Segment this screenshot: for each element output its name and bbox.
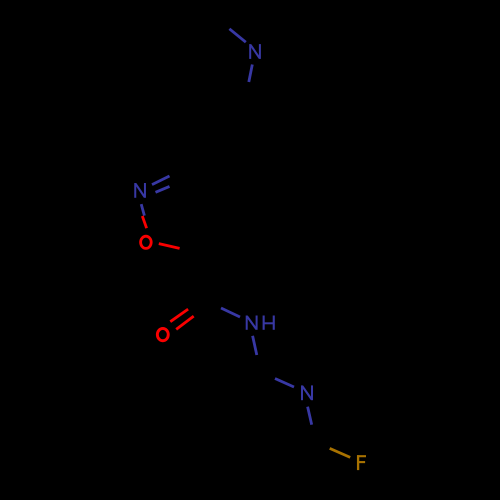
wire: top pyridine N1&#8594;C6 bond, N-side half <box>249 65 253 83</box>
wire: isoxazole N2&#8211;O1 bond, O-side half <box>142 216 146 228</box>
wire: bottom pyridine C2&#8594;N1 bond, N-side half <box>275 379 294 388</box>
wire: isoxazole N2=C3 double bond, main line N-side half <box>152 176 170 185</box>
wire: C6&#8211;F bond, F-side half <box>330 448 351 457</box>
wire: isoxazole O1&#8211;C5 bond, O-side half <box>159 244 180 249</box>
node N of amide NH (label) <box>247 316 257 330</box>
node O of carbonyl (label) <box>157 328 168 340</box>
wire: amide C=O double bond line 1, O-side half <box>170 309 188 322</box>
wire: isoxazole N2=C3 double bond, inner line N-side half <box>156 186 170 192</box>
node N1 of bottom pyridine (label) <box>302 385 312 400</box>
node O1 of isoxazole (label) <box>141 236 152 248</box>
wire: isoxazole N2&#8211;O1 bond, N-side half <box>141 204 144 216</box>
wire: amide N&#8211;C2 bond to bottom pyridine, N-side half <box>253 336 257 355</box>
node N2 of isoxazole (label) <box>135 183 145 198</box>
wire: bottom pyridine N1&#8594;C6 bond, N-side half <box>308 407 312 425</box>
wire: amide C&#8211;N bond, N-side half <box>221 308 240 317</box>
node N1 of top pyridine (label) <box>250 44 260 59</box>
node F fluorine (label) <box>357 455 366 470</box>
node H of amide NH (label) <box>264 316 274 330</box>
wire: amide C=O double bond line 2, O-side half <box>176 316 194 329</box>
wire: top pyridine C2&#8594;N1 bond, N-side half <box>229 29 245 42</box>
